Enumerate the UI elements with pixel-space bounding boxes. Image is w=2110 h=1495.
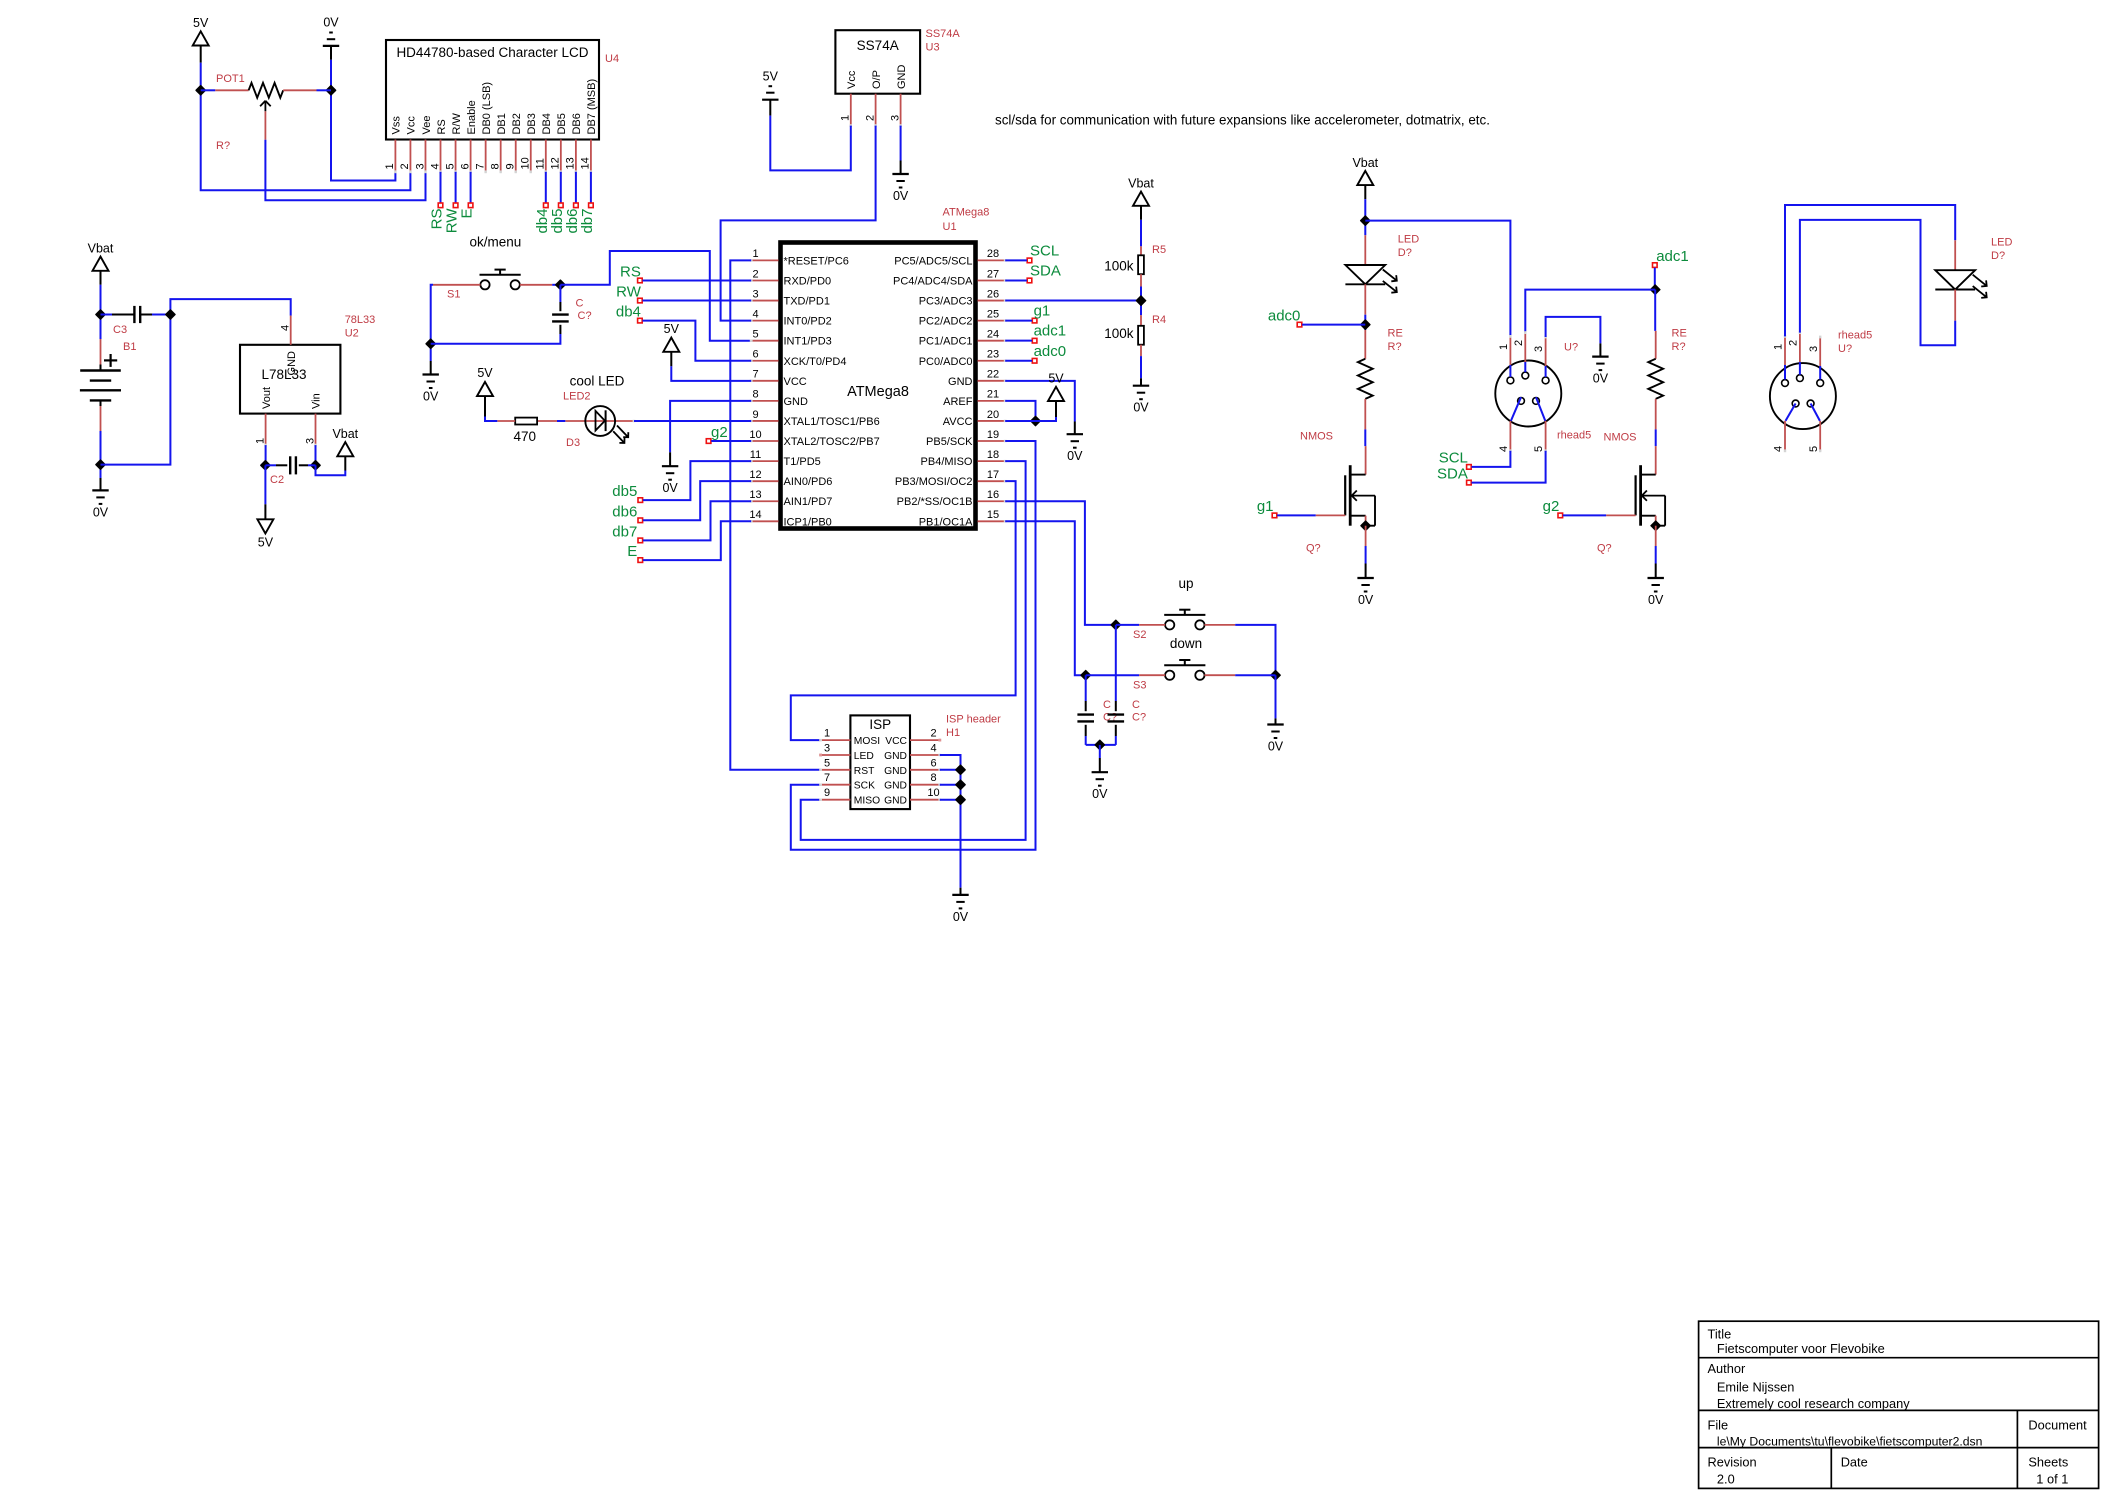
resistor RE R? (2)	[1648, 290, 1686, 430]
pin 7 DB0 (LSB)	[474, 82, 493, 173]
ground 0V (GND pin22)	[1005, 381, 1083, 463]
svg-text:DB2: DB2	[511, 113, 523, 134]
transistor Q? NMOS (2)	[1597, 432, 1665, 555]
svg-text:12: 12	[749, 469, 761, 481]
pin 1 MOSI	[819, 728, 880, 748]
net label RW	[616, 284, 751, 303]
ground 0V (GND pin8)	[662, 401, 751, 495]
svg-text:Vcc: Vcc	[406, 116, 418, 135]
wire ISP GND pins to 0V	[940, 755, 961, 888]
svg-text:2: 2	[1513, 340, 1525, 346]
svg-text:22: 22	[987, 369, 999, 381]
pin 1 Vcc	[840, 70, 859, 127]
svg-text:6: 6	[459, 163, 471, 169]
svg-text:10: 10	[520, 157, 532, 169]
pin 3	[1808, 336, 1822, 380]
pin 4 GND	[884, 743, 941, 763]
power Vbat (to Vin)	[316, 427, 359, 475]
net label E (LCD)	[459, 172, 476, 219]
wire SS74A O/P to INT0	[721, 126, 876, 321]
net label RS	[620, 264, 751, 283]
connector U? rhead5 (2)	[1770, 329, 1872, 452]
svg-text:PC0/ADC0: PC0/ADC0	[919, 356, 973, 368]
pin 8 GND	[884, 772, 941, 792]
svg-text:Extremely cool research compan: Extremely cool research company	[1717, 1396, 1910, 1411]
LED D? (2, far right)	[1935, 237, 2012, 321]
pin 14 DB7 (MSB)	[580, 79, 599, 173]
ground 0V (rhead5 1)	[1592, 343, 1609, 385]
net label db5	[612, 461, 751, 502]
connector H1 ISP header	[819, 714, 1001, 810]
wire Vbat to rhead5 pin1	[1365, 221, 1510, 337]
svg-text:U?: U?	[1564, 341, 1578, 353]
svg-text:10: 10	[749, 429, 761, 441]
svg-text:Vbat: Vbat	[88, 242, 114, 256]
svg-text:8: 8	[930, 772, 936, 784]
power 5V	[193, 16, 209, 63]
svg-text:adc1: adc1	[1656, 248, 1689, 265]
svg-text:E: E	[459, 209, 476, 219]
svg-text:0V: 0V	[423, 390, 439, 404]
pin 24 PC1/ADC1	[919, 328, 1007, 347]
capacitor C2	[265, 456, 315, 486]
power 5V (SS74A)	[762, 70, 779, 116]
svg-text:R?: R?	[1672, 341, 1686, 353]
svg-text:db7: db7	[579, 209, 596, 234]
svg-text:9: 9	[752, 409, 758, 421]
ground 0V (divider)	[1133, 356, 1150, 415]
svg-text:SDA: SDA	[1437, 465, 1468, 482]
wire C3 right to 0V rail and U2 GND	[101, 299, 291, 465]
power Vbat	[88, 242, 114, 285]
svg-text:SS74A: SS74A	[857, 38, 899, 53]
wire 5V to SS74A Vcc	[770, 116, 851, 171]
junction	[196, 86, 205, 95]
svg-text:RST: RST	[854, 766, 875, 777]
net label SCL	[1005, 242, 1059, 262]
svg-text:AVCC: AVCC	[943, 416, 973, 428]
svg-text:Vee: Vee	[421, 116, 433, 135]
svg-text:Vbat: Vbat	[1352, 156, 1378, 170]
resistor R5 100k	[1104, 244, 1166, 287]
pin 12 DB5	[550, 113, 569, 173]
junction	[556, 280, 565, 289]
svg-text:GND: GND	[884, 796, 907, 807]
resistor RE R? (1)	[1358, 327, 1403, 429]
svg-text:0V: 0V	[1133, 401, 1149, 415]
svg-text:5: 5	[1808, 446, 1820, 452]
svg-text:db4: db4	[616, 304, 641, 321]
svg-text:18: 18	[987, 449, 999, 461]
svg-text:POT1: POT1	[216, 73, 245, 85]
svg-text:NMOS: NMOS	[1300, 431, 1333, 443]
svg-text:GND: GND	[286, 351, 298, 376]
pin 17 PB3/MOSI/OC2	[895, 469, 1007, 488]
svg-text:GND: GND	[884, 751, 907, 762]
junction	[956, 795, 965, 804]
svg-text:15: 15	[987, 509, 999, 521]
wire Vbat to R5	[1140, 220, 1142, 247]
svg-text:2: 2	[1788, 340, 1800, 346]
svg-text:SS74A: SS74A	[926, 28, 961, 40]
svg-text:db6: db6	[612, 503, 637, 520]
wire RE to NMOS drain (2)	[1655, 429, 1657, 446]
wire net 5V	[201, 63, 411, 191]
junction	[311, 461, 320, 470]
ground 0V	[92, 478, 109, 519]
svg-text:5V: 5V	[1048, 371, 1064, 385]
svg-text:14: 14	[749, 509, 761, 521]
svg-text:0V: 0V	[1092, 787, 1108, 801]
svg-text:13: 13	[565, 157, 577, 169]
junction	[1651, 521, 1660, 530]
svg-text:U1: U1	[943, 221, 957, 233]
svg-text:Vbat: Vbat	[1128, 177, 1154, 191]
net label adc1	[1653, 248, 1689, 289]
wire Vbat to B1/C3	[100, 285, 102, 339]
svg-text:AIN1/PD7: AIN1/PD7	[784, 496, 833, 508]
junction	[166, 310, 175, 319]
svg-text:g1: g1	[1257, 498, 1274, 515]
svg-text:1: 1	[1498, 344, 1510, 350]
junction	[1095, 740, 1104, 749]
svg-text:File: File	[1708, 1418, 1729, 1433]
svg-text:0V: 0V	[1593, 372, 1609, 386]
pin 6 Enable	[459, 100, 478, 173]
pin 3 Vee	[414, 116, 433, 174]
svg-text:19: 19	[987, 429, 999, 441]
wire AREF to AVCC	[1005, 401, 1035, 421]
pin 15 PB1/OC1A	[919, 509, 1007, 528]
svg-text:12: 12	[550, 157, 562, 169]
ground 0V (ISP)	[952, 888, 969, 924]
svg-text:S3: S3	[1133, 679, 1146, 691]
svg-text:PC1/ADC1: PC1/ADC1	[919, 336, 973, 348]
svg-text:DB1: DB1	[496, 113, 508, 134]
svg-text:27: 27	[987, 268, 999, 280]
pin 1 Vout	[254, 387, 272, 447]
svg-text:g2: g2	[1543, 498, 1560, 515]
pin 3 GND	[889, 65, 908, 128]
svg-text:adc0: adc0	[1268, 307, 1301, 324]
svg-text:ATMega8: ATMega8	[943, 207, 990, 219]
svg-text:RE: RE	[1672, 327, 1687, 339]
pin 1 *RESET/PC6	[750, 248, 849, 267]
pin 2	[1513, 331, 1527, 372]
net label db7 (LCD)	[579, 172, 596, 234]
svg-text:3: 3	[824, 743, 830, 755]
svg-text:Vss: Vss	[391, 116, 403, 135]
svg-text:GND: GND	[784, 396, 809, 408]
svg-text:AIN0/PD6: AIN0/PD6	[784, 476, 833, 488]
net label RW (LCD)	[444, 172, 461, 233]
pin 3	[1533, 336, 1547, 377]
svg-text:Q?: Q?	[1597, 543, 1612, 555]
power 5V (LED2)	[477, 366, 493, 417]
pin 22 GND	[948, 369, 1007, 388]
svg-text:DB7 (MSB): DB7 (MSB)	[586, 79, 598, 135]
capacitor C? (S2)	[1108, 625, 1147, 745]
svg-text:4: 4	[930, 743, 936, 755]
wire S1 right to node	[520, 284, 561, 286]
junction	[956, 765, 965, 774]
wire rhead5(1) pin3 to 0V	[1546, 317, 1601, 344]
svg-text:5V: 5V	[477, 366, 493, 380]
svg-text:4: 4	[429, 163, 441, 169]
junction	[1081, 671, 1090, 680]
svg-text:ISP header: ISP header	[946, 714, 1001, 726]
svg-text:scl/sda for communication with: scl/sda for communication with future ex…	[995, 113, 1490, 128]
net label db5 (LCD)	[549, 172, 566, 234]
svg-text:GND: GND	[884, 766, 907, 777]
svg-text:LED: LED	[1991, 237, 2012, 249]
svg-text:2: 2	[930, 728, 936, 740]
pin 8 DB1	[489, 113, 508, 173]
svg-text:13: 13	[749, 489, 761, 501]
pin 3 TXD/PD1	[750, 288, 830, 307]
svg-text:5V: 5V	[664, 322, 680, 336]
wire S3 stubs	[1086, 674, 1276, 676]
junction	[1136, 296, 1145, 305]
svg-text:7: 7	[824, 772, 830, 784]
svg-text:RS: RS	[436, 119, 448, 134]
pin 7 VCC	[750, 369, 807, 388]
wire rhead5(2) pin2 to LED cathode	[1800, 220, 1955, 345]
svg-text:Fietscomputer voor Flevobike: Fietscomputer voor Flevobike	[1717, 1341, 1885, 1356]
svg-text:INT0/PD2: INT0/PD2	[784, 316, 832, 328]
svg-text:1: 1	[1773, 344, 1785, 350]
net label db6	[612, 481, 751, 522]
svg-text:1: 1	[824, 728, 830, 740]
pin 5	[1533, 397, 1547, 452]
svg-text:10: 10	[927, 787, 939, 799]
svg-text:25: 25	[987, 308, 999, 320]
wire Vout to C2	[265, 445, 267, 465]
pin 10 XTAL2/TOSC2/PB7	[749, 429, 879, 448]
pin 23 PC0/ADC0	[919, 349, 1007, 368]
junction	[326, 86, 335, 95]
junction	[96, 310, 105, 319]
svg-text:2: 2	[399, 163, 411, 169]
svg-text:1: 1	[254, 438, 266, 444]
connector U? rhead5 (1)	[1495, 331, 1591, 452]
svg-text:470: 470	[514, 429, 537, 444]
svg-text:11: 11	[750, 449, 761, 461]
svg-text:VCC: VCC	[885, 736, 907, 747]
svg-text:5V: 5V	[193, 16, 209, 30]
svg-text:cool LED: cool LED	[570, 374, 625, 389]
svg-text:0V: 0V	[1268, 740, 1284, 754]
pin 12 AIN0/PD6	[749, 469, 832, 488]
pin 5 R/W	[444, 113, 463, 174]
pin 13 DB6	[565, 113, 584, 173]
svg-text:XTAL1/TOSC1/PB6: XTAL1/TOSC1/PB6	[784, 416, 880, 428]
svg-text:1 of 1: 1 of 1	[2036, 1472, 2068, 1487]
pin 19 PB5/SCK	[926, 429, 1007, 448]
svg-text:4: 4	[752, 308, 758, 320]
svg-text:C?: C?	[1132, 712, 1146, 724]
svg-text:5V: 5V	[763, 70, 779, 84]
pin 10 DB3	[520, 113, 539, 173]
pin 4 RS	[429, 119, 448, 173]
power Vbat (divider)	[1128, 177, 1154, 220]
pin 1	[1498, 335, 1512, 377]
net label adc1	[1005, 323, 1066, 343]
pin 4	[1498, 397, 1521, 452]
svg-text:ATMega8: ATMega8	[847, 384, 909, 400]
svg-text:PB2/*SS/OC1B: PB2/*SS/OC1B	[897, 496, 973, 508]
regulator U2 L78L33	[240, 314, 375, 447]
svg-text:23: 23	[987, 349, 999, 361]
junction	[1111, 620, 1120, 629]
svg-text:GND: GND	[896, 65, 908, 90]
svg-text:adc1: adc1	[1034, 323, 1067, 340]
wire Vin to C2	[315, 445, 317, 465]
svg-text:Emile Nijssen: Emile Nijssen	[1717, 1379, 1795, 1394]
power 5V (Vout net, arrow down)	[257, 465, 273, 549]
ground 0V (SS74A)	[892, 126, 909, 203]
svg-text:DB0 (LSB): DB0 (LSB)	[481, 82, 493, 135]
junction	[956, 780, 965, 789]
net label db4	[616, 304, 751, 361]
svg-text:0V: 0V	[953, 910, 969, 924]
title block	[1699, 1321, 2099, 1488]
svg-text:SCK: SCK	[854, 781, 875, 792]
svg-text:ICP1/PB0: ICP1/PB0	[784, 516, 832, 528]
pin 10 GND	[884, 787, 941, 807]
svg-text:RXD/PD0: RXD/PD0	[784, 275, 832, 287]
svg-text:DB6: DB6	[571, 113, 583, 134]
svg-text:C2: C2	[270, 474, 284, 486]
svg-text:O/P: O/P	[871, 70, 883, 89]
junction	[1361, 216, 1370, 225]
svg-text:LED2: LED2	[563, 391, 591, 403]
svg-text:Author: Author	[1708, 1361, 1746, 1376]
svg-text:11: 11	[535, 158, 547, 169]
svg-text:Q?: Q?	[1306, 543, 1321, 555]
svg-text:MOSI: MOSI	[854, 736, 880, 747]
svg-text:INT1/PD3: INT1/PD3	[784, 336, 832, 348]
wire *RESET to ISP RST	[730, 260, 820, 769]
switch S3 (down)	[1133, 636, 1205, 691]
svg-text:XTAL2/TOSC2/PB7: XTAL2/TOSC2/PB7	[784, 436, 880, 448]
svg-text:0V: 0V	[893, 189, 909, 203]
svg-text:LED: LED	[854, 751, 874, 762]
wire rhead5(2) pin1 to LED anode	[1785, 205, 1955, 336]
svg-text:le\My Documents\tu\flevobike\f: le\My Documents\tu\flevobike\fietscomput…	[1717, 1434, 1983, 1448]
wire S1 to INT1/PD3	[560, 251, 751, 341]
power Vbat (LED driver 1)	[1352, 156, 1378, 199]
svg-text:L78L33: L78L33	[261, 367, 306, 382]
svg-text:28: 28	[987, 248, 999, 260]
svg-text:TXD/PD1: TXD/PD1	[784, 296, 830, 308]
svg-text:rhead5: rhead5	[1838, 329, 1872, 341]
svg-text:VCC: VCC	[784, 376, 807, 388]
svg-text:2: 2	[864, 115, 876, 121]
svg-text:SDA: SDA	[1030, 263, 1061, 280]
svg-text:PB4/MISO: PB4/MISO	[921, 456, 973, 468]
svg-text:3: 3	[304, 438, 316, 444]
pin 2 O/P	[864, 70, 883, 127]
svg-text:U?: U?	[1838, 343, 1852, 355]
svg-text:16: 16	[987, 489, 999, 501]
ground 0V (S2/S3 right)	[1267, 675, 1284, 753]
svg-text:6: 6	[930, 757, 936, 769]
svg-text:D?: D?	[1398, 247, 1412, 259]
svg-text:C: C	[1103, 699, 1111, 711]
pin 5 INT1/PD3	[750, 328, 832, 347]
pin 1	[1773, 335, 1787, 380]
junction	[1031, 416, 1040, 425]
svg-text:E: E	[627, 543, 637, 560]
svg-text:100k: 100k	[1104, 326, 1134, 341]
svg-text:R5: R5	[1152, 244, 1166, 256]
pin 11 DB4	[535, 113, 554, 173]
svg-text:S1: S1	[447, 289, 460, 301]
pin 20 AVCC	[943, 409, 1007, 428]
svg-text:5: 5	[1533, 446, 1545, 452]
power 5V (VCC pin7)	[663, 322, 751, 381]
svg-text:PB5/SCK: PB5/SCK	[926, 436, 973, 448]
svg-text:Vout: Vout	[261, 387, 273, 409]
net label adc0	[1268, 307, 1365, 327]
svg-text:4: 4	[280, 325, 292, 331]
svg-text:0V: 0V	[662, 481, 678, 495]
ground 0V	[423, 361, 440, 404]
svg-text:PC2/ADC2: PC2/ADC2	[919, 316, 973, 328]
pin 9 XTAL1/TOSC1/PB6	[750, 409, 880, 428]
svg-text:0V: 0V	[1648, 593, 1664, 607]
svg-text:5V: 5V	[258, 536, 274, 550]
switch S2 (up)	[1133, 576, 1205, 641]
svg-text:DB5: DB5	[556, 113, 568, 134]
svg-text:H1: H1	[946, 727, 960, 739]
svg-text:adc0: adc0	[1034, 343, 1067, 360]
junction	[1271, 671, 1280, 680]
svg-text:C: C	[1132, 699, 1140, 711]
wire pot wiper to LCD Vee	[265, 140, 425, 201]
svg-text:7: 7	[474, 163, 486, 169]
svg-text:DB4: DB4	[541, 113, 553, 134]
svg-text:C3: C3	[113, 324, 127, 336]
svg-text:U2: U2	[345, 328, 359, 340]
pin 28 PC5/ADC5/SCL	[894, 248, 1006, 267]
wire RE to NMOS drain	[1364, 429, 1366, 446]
net label db7	[612, 501, 751, 542]
junction	[1361, 320, 1370, 329]
svg-text:PC3/ADC3: PC3/ADC3	[919, 296, 973, 308]
svg-text:g2: g2	[711, 424, 728, 441]
svg-text:Vcc: Vcc	[846, 70, 858, 89]
svg-text:Document: Document	[2028, 1418, 2087, 1433]
IC U1 ATMega8	[749, 207, 1006, 529]
svg-text:78L33: 78L33	[345, 314, 376, 326]
pin 3 LED	[819, 743, 874, 763]
svg-text:MISO: MISO	[854, 796, 880, 807]
svg-text:R/W: R/W	[451, 113, 463, 135]
pin 6 XCK/T0/PD4	[750, 349, 847, 368]
pin 4	[1773, 404, 1796, 453]
LED LED2/D3 (cool LED)	[563, 374, 635, 450]
svg-text:5: 5	[752, 328, 758, 340]
net label RS (LCD)	[429, 172, 446, 230]
pin 5 RST	[819, 757, 875, 777]
wire divider node	[1140, 287, 1142, 316]
svg-text:4: 4	[1773, 446, 1785, 452]
pin 11 T1/PD5	[750, 449, 821, 468]
pin 2	[1788, 331, 1802, 375]
net label db4 (LCD)	[534, 172, 551, 234]
